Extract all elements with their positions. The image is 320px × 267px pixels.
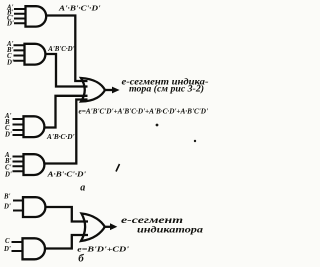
svg-text:D': D': [6, 21, 14, 28]
svg-text:тора (см рис 3-2): тора (см рис 3-2): [129, 84, 204, 94]
svg-text:A'·B'·C'·D': A'·B'·C'·D': [58, 4, 101, 13]
svg-text:D': D': [3, 246, 11, 253]
svg-text:D': D': [3, 204, 11, 211]
svg-text:C: C: [5, 238, 10, 245]
svg-text:B': B': [3, 194, 11, 201]
svg-text:A·B'·C'·D': A·B'·C'·D': [46, 170, 86, 179]
svg-text:C': C': [5, 165, 12, 172]
svg-text:A'B·C·D': A'B·C·D': [46, 132, 74, 141]
svg-text:A'B'C·D': A'B'C·D': [47, 44, 74, 53]
svg-text:а: а: [80, 182, 85, 193]
svg-text:D': D': [6, 60, 14, 67]
svg-text:индикатора: индикатора: [137, 225, 204, 235]
svg-text:б: б: [78, 252, 84, 264]
svg-text:е=B'D'+CD': е=B'D'+CD': [77, 245, 129, 254]
svg-text:D': D': [4, 172, 12, 179]
svg-text:е-сегмент: е-сегмент: [121, 215, 183, 225]
svg-text:е=A'B'C'D'+A'B'C·D'+A'B·C·D'+A: е=A'B'C'D'+A'B'C·D'+A'B·C·D'+A·B'C'D': [79, 107, 209, 116]
svg-text:D': D': [4, 132, 12, 139]
